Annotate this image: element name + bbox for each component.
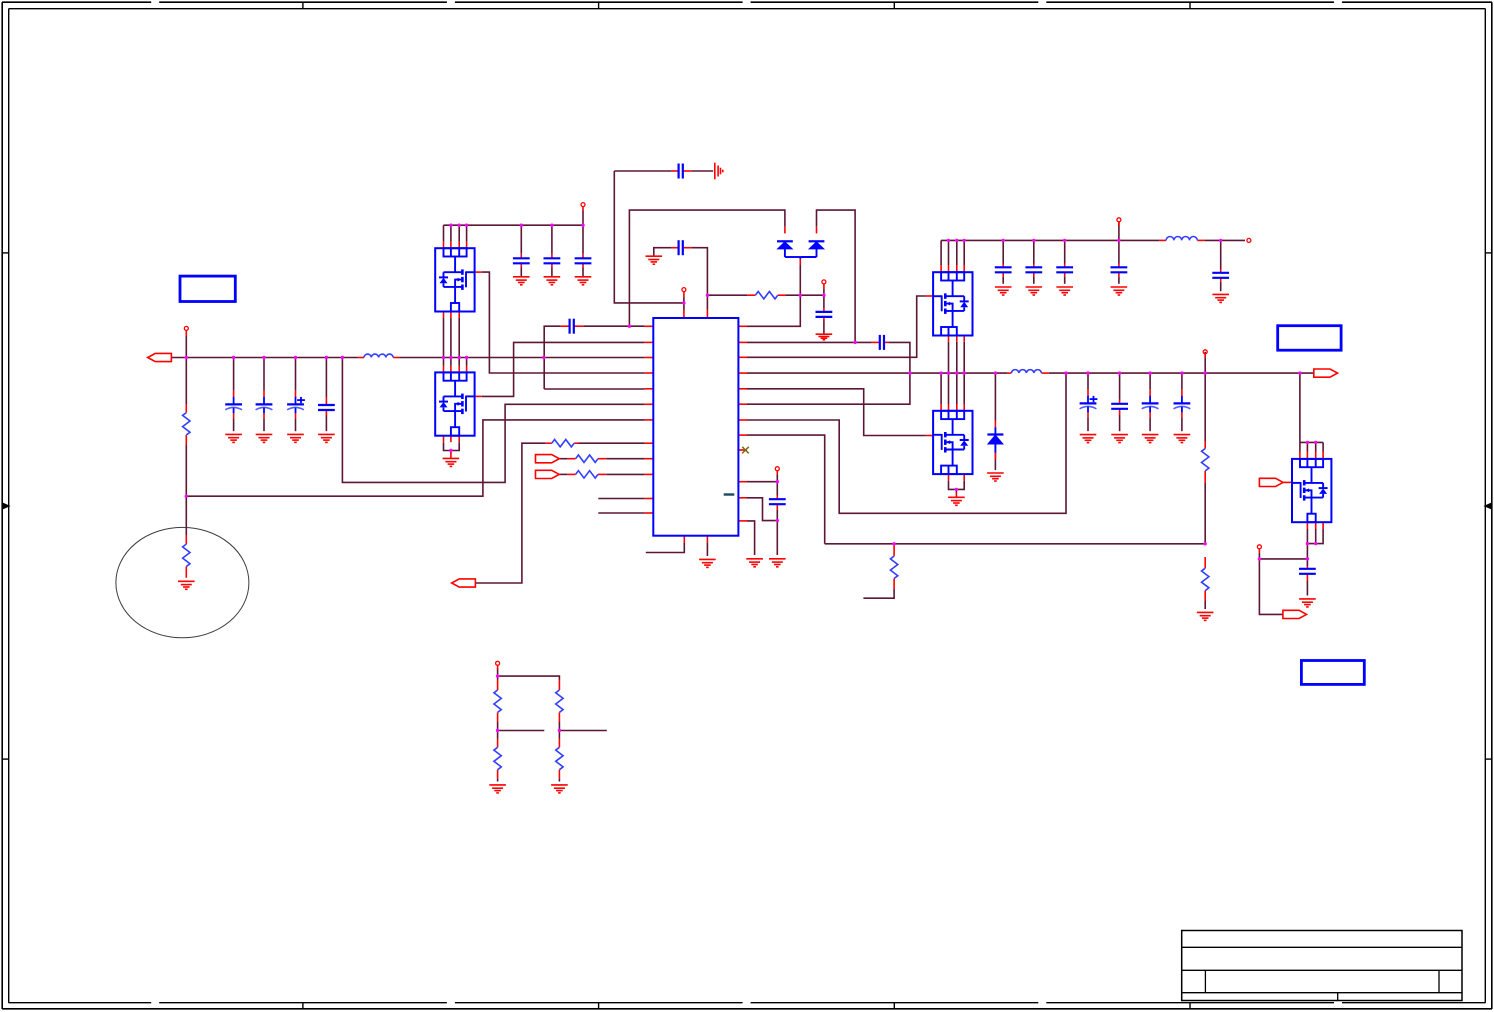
wire bus1 cap C6 drop — [551, 225, 553, 254]
wire R10 to gnd — [1204, 601, 1206, 609]
wire vref bridge — [498, 676, 560, 679]
ground R11b — [489, 785, 506, 793]
resistor R6 — [576, 455, 598, 462]
wire U1 top pin2 drop — [706, 295, 708, 309]
terminal VCC — [822, 280, 826, 284]
resistor R2 — [183, 544, 190, 566]
capacitor C11 boot2 — [880, 335, 884, 350]
ground C6 — [544, 277, 561, 285]
wire Q4 source join — [949, 481, 965, 490]
wire Q5 pin4 down — [1322, 442, 1324, 451]
wire Q5 bus — [1300, 441, 1323, 443]
ground C19 — [1142, 435, 1159, 443]
wire C22 feed — [776, 482, 778, 496]
wire C20 gnd — [1181, 417, 1183, 431]
wire C1 top — [233, 358, 235, 391]
ground C21 — [1299, 599, 1316, 607]
port P7 sense out — [1283, 610, 1307, 618]
wire C3 top — [295, 358, 297, 391]
transistor Q5 — [1292, 459, 1331, 522]
wire U1 pin8R — [747, 435, 825, 544]
ground C15 — [1111, 287, 1128, 295]
wire C13 drop — [1033, 240, 1035, 263]
wire D1 D2 stem — [799, 265, 801, 295]
wire Q5 sources join — [1306, 529, 1308, 544]
ground C3 — [287, 434, 304, 442]
wire Q1 pin3 up — [458, 225, 460, 241]
ground C14 — [1056, 287, 1073, 295]
wire Q4 pin1 feed — [940, 373, 942, 404]
wire L2 to 5V terminal — [1221, 239, 1245, 241]
wire bus2 — [941, 239, 1159, 241]
wire C20 drop — [1181, 373, 1183, 389]
wire C4 top — [325, 358, 327, 398]
wire Q2 source stem — [450, 451, 452, 453]
capacitor C6b — [575, 258, 592, 263]
terminal node VIN — [184, 326, 188, 330]
terminal bus2 — [1117, 218, 1121, 222]
wire U1 pin12R — [747, 521, 755, 555]
resistor R10 — [1202, 568, 1209, 590]
wire C16 drop — [1220, 240, 1222, 269]
capacitor C4 — [318, 405, 335, 410]
wire C1 bottom — [233, 418, 235, 431]
wire C17 drop — [1087, 373, 1089, 389]
wire port2 to R5 — [476, 443, 546, 583]
title block — [1182, 931, 1462, 1001]
no-connect X on U1 pin9R — [742, 447, 749, 454]
ground C1 — [225, 434, 242, 442]
wire Q1 pin2 up — [450, 225, 452, 241]
wire Q5 pin1 down — [1299, 442, 1301, 451]
wire Q3 pin2 up — [948, 240, 950, 265]
wire C11 to SW — [888, 342, 910, 373]
wire R12 tap — [559, 730, 606, 732]
wire C15 gnd — [1118, 277, 1120, 284]
port XP1 input (left) — [148, 353, 172, 361]
wire U1 pin10R node — [747, 481, 777, 483]
wire to port3 — [1259, 559, 1283, 615]
ground U1 gnd pin — [699, 559, 716, 567]
port P5 fb2 — [536, 470, 560, 478]
ground U1 right1 — [746, 559, 763, 567]
wire bus1 terminal drop — [582, 211, 584, 254]
resistor R9 — [1202, 449, 1209, 471]
wire Q4 pin4 feed — [963, 373, 965, 404]
wire C7 right to U1 pin1 — [583, 325, 645, 327]
wire R12 mid — [558, 722, 560, 739]
wire Q5 node row — [1259, 558, 1307, 560]
wire C6 to gnd — [551, 268, 553, 277]
terminal U1 right — [775, 467, 779, 471]
capacitor C6 — [544, 258, 561, 263]
wire R7 to U1 — [606, 473, 644, 475]
terminal Q5 node — [1257, 545, 1261, 549]
wire vcc terminal2 stub — [776, 475, 778, 482]
wire VOUT to Q5 — [1299, 373, 1301, 442]
wire C19 drop — [1149, 373, 1151, 389]
wire Q3 pin4 up — [963, 240, 965, 265]
wire C2 bottom — [263, 418, 265, 431]
capacitor C7 boot — [570, 319, 574, 334]
wire Q2 pin1 feed — [443, 358, 445, 366]
ground C18 — [1111, 435, 1128, 443]
transistor Q1 — [435, 248, 474, 311]
ground C4 — [318, 434, 335, 442]
wire port fb2 lead — [559, 473, 567, 475]
port P6 gate drive — [1259, 478, 1283, 486]
ground C17 — [1080, 435, 1097, 443]
inductor L1 — [364, 354, 393, 357]
capacitor C15 — [1111, 267, 1128, 272]
resistor R12 — [556, 690, 563, 712]
wire Q5 source join2 — [1315, 529, 1317, 544]
ground C20 — [1174, 435, 1191, 443]
port P3 (lower left) — [452, 579, 476, 587]
capacitor C16 — [1212, 273, 1229, 278]
wire C15 drop — [1118, 240, 1120, 263]
wire Q1 pin6 down — [450, 318, 452, 358]
ground R12b — [551, 785, 568, 793]
wire vref terminal — [497, 668, 499, 680]
wire D3 top — [994, 373, 996, 420]
wire Q3 pin5 down — [948, 342, 950, 373]
wire FB row — [825, 543, 1205, 545]
wire L2 out — [1205, 239, 1221, 241]
wire U1 pad pin hook — [646, 542, 685, 552]
inductor L3 — [1011, 370, 1041, 373]
wire U1 pin5R to Q4 gate — [747, 389, 926, 436]
wire C5 to gnd — [520, 268, 522, 277]
wire port fb1 lead — [559, 458, 567, 460]
wire C19 gnd — [1149, 417, 1151, 431]
Q4 stem red — [955, 493, 957, 498]
wire rail to R1 — [185, 358, 187, 405]
wire Q3 pin6 down — [956, 342, 958, 373]
wire C7 left lead — [544, 326, 560, 389]
wire C2 top — [263, 358, 265, 391]
wire tap to R2 — [185, 496, 187, 535]
wire Q3 pin1 up — [940, 240, 942, 265]
terminal 5V out — [1247, 238, 1251, 242]
wire C14 gnd — [1064, 277, 1066, 284]
wire C12 drop — [1002, 240, 1004, 263]
ground C16 — [1212, 294, 1229, 302]
wire Q5 source join3 — [1307, 529, 1323, 544]
resistor R8 — [890, 556, 897, 578]
wire bus1 cap C5 drop — [520, 225, 522, 254]
capacitor C20 (polar) — [1174, 396, 1191, 413]
wire C5b to gnd — [582, 268, 584, 277]
wire U1 pin12L stub — [598, 512, 644, 514]
resistor R11b — [494, 747, 501, 769]
wire U1 pin6R to SW — [747, 373, 910, 404]
wire C9 right corner — [691, 248, 707, 296]
wire C18 drop — [1119, 373, 1121, 399]
wire Q4 pin2 feed — [948, 373, 950, 404]
wire R11 mid — [497, 722, 499, 739]
wire Q2 source join — [444, 442, 460, 450]
wire U1 pin11R jog — [747, 498, 777, 521]
ground C12 — [995, 287, 1012, 295]
wire Q3 pin7 down — [963, 342, 965, 373]
resistor R3 — [755, 292, 777, 299]
diode D1 — [777, 241, 793, 249]
wire R6 to U1 — [606, 458, 644, 460]
capacitor C2 (polar) — [256, 397, 273, 414]
wire R5 to U1 — [579, 442, 645, 444]
diode D2 bottom lead — [800, 249, 816, 259]
inductor L2 — [1166, 236, 1197, 240]
capacitor C10 vcc — [816, 312, 833, 317]
diode D3 — [987, 435, 1003, 445]
wire Q1 pin5 down — [443, 318, 445, 358]
capacitor C17 (polar +) — [1080, 396, 1098, 413]
ground Q2 source — [443, 458, 460, 466]
label box aux — [1301, 661, 1364, 685]
capacitor C14 — [1056, 267, 1073, 272]
ground U1 right2 — [769, 559, 786, 567]
wire Q1 pin1 up — [443, 225, 445, 241]
wire U1 gnd pin — [706, 542, 708, 556]
wire VCC to U1 pin1R — [747, 295, 800, 326]
wire U1 pin2R to C11 — [747, 341, 872, 343]
wire Q1 pin7 down — [458, 318, 460, 358]
wire Q4 pin3 feed — [956, 373, 958, 404]
terminal U1 top — [682, 288, 686, 292]
diode D2 — [809, 241, 825, 249]
wire divider tap to U1 — [186, 420, 644, 496]
ground R10 — [1197, 612, 1214, 620]
wire R11b gnd — [497, 778, 499, 781]
wire C7 row to U1 pin5 — [544, 388, 645, 390]
ground R2 (in circle) — [178, 581, 195, 589]
wire C13 gnd — [1033, 277, 1035, 284]
wire VCC node row — [707, 294, 747, 296]
capacitor C13 — [1025, 267, 1042, 272]
ground Q4 source — [948, 497, 965, 505]
chassis ground (rotated) — [715, 163, 723, 180]
wire Q1 pin4 up — [466, 225, 468, 241]
wire input terminal drop — [185, 336, 187, 358]
capacitor C3 (polar +) — [287, 397, 305, 414]
resistor R1 — [183, 413, 190, 435]
ground C13 — [1026, 287, 1043, 295]
capacitor C18 — [1111, 404, 1128, 409]
terminal vref — [496, 661, 500, 665]
wire Q4 source stem — [955, 489, 957, 492]
wire bus2 terminal — [1118, 222, 1120, 241]
diode D3 leads — [994, 427, 996, 453]
terminal bus1 — [581, 203, 585, 207]
wire D3 bottom — [994, 453, 996, 470]
wire U1 pin7R to VOUT — [747, 373, 1066, 513]
wire C8 drop to U1 top pin — [614, 171, 684, 303]
wire VOUT rail — [1049, 372, 1314, 374]
label box VIN — [180, 276, 235, 301]
capacitor C1 (polar) — [225, 397, 242, 414]
wire C17 gnd — [1087, 417, 1089, 431]
wire Q2 pin3 feed — [458, 358, 460, 366]
wire VIN rail to IC — [399, 357, 645, 359]
U1 internal mark — [724, 493, 735, 495]
wire Q2 pin4 feed — [466, 358, 468, 366]
wire Q3 pin3 up — [956, 240, 958, 265]
ground C10 — [816, 334, 833, 340]
U1 pin stubs — [645, 310, 747, 543]
wire rail junction to U1 EN pin — [342, 358, 644, 483]
U1 controller IC — [653, 318, 738, 536]
capacitor C12 — [995, 267, 1012, 272]
ground C6b — [575, 277, 592, 285]
wire VCC terminal stub — [823, 289, 825, 295]
analysis ellipse — [116, 527, 249, 637]
wire Q1 gate to U1 — [482, 272, 645, 373]
capacitor C8 (top) — [679, 164, 683, 179]
wire Q5 pin3 down — [1315, 442, 1317, 451]
capacitor C9 — [679, 240, 683, 255]
wire VCC bus1 — [444, 224, 584, 226]
transistor Q2 — [435, 372, 474, 435]
resistor R7 — [576, 471, 598, 478]
wire VIN rail from input port — [171, 357, 358, 359]
wire VCC cap drop — [823, 295, 825, 308]
transistor Q3 — [933, 272, 972, 335]
wire R8 hook — [863, 589, 894, 598]
wire R12b gnd — [558, 778, 560, 781]
wire R3 to diode node — [785, 294, 824, 296]
wire C12 gnd — [1002, 277, 1004, 284]
wire C8 left lead — [614, 170, 671, 172]
capacitor C5 — [513, 258, 530, 263]
wire C18 gnd — [1119, 415, 1121, 431]
wire Q5 terminal stub — [1258, 553, 1260, 559]
ground D3 — [987, 473, 1004, 481]
wire C16 gnd — [1220, 282, 1222, 291]
wire R1 to divider tap — [185, 445, 187, 496]
transistor Q4 — [933, 411, 972, 474]
wire C22 out — [776, 510, 778, 555]
capacitor C21 — [1299, 569, 1316, 574]
resistor R12b — [556, 747, 563, 769]
resistor R11 — [494, 690, 501, 712]
capacitor C22 — [769, 499, 786, 504]
wire U1 top pin1 stub — [683, 298, 685, 310]
wire C3 bottom — [295, 418, 297, 431]
wire C8 right to chassis — [691, 170, 713, 172]
port P4 fb1 — [536, 455, 560, 463]
wire R9 top — [1204, 352, 1206, 441]
label box VOUT — [1278, 326, 1341, 351]
wire C21 gnd — [1306, 581, 1308, 596]
wire VCC cap to gnd — [823, 321, 825, 335]
wire U1 pin11L stub — [598, 498, 644, 500]
wire C9 gnd corner — [654, 248, 672, 257]
diode D1 bottom lead — [785, 249, 800, 257]
wire C21 drop — [1306, 559, 1308, 566]
wire R9 to FB — [1204, 483, 1206, 544]
terminal VOUT div — [1203, 350, 1207, 354]
wire Q2 gate to U1 — [482, 342, 645, 396]
ground C5 — [513, 277, 530, 285]
port XP2 output (right) — [1314, 369, 1338, 377]
resistor R5 — [552, 440, 574, 447]
wire C4 bottom — [325, 416, 327, 432]
wire Q5 pin2 down — [1306, 442, 1308, 451]
ground C2 — [256, 434, 273, 442]
capacitor C19 (polar) — [1142, 396, 1159, 413]
wire C14 drop — [1064, 240, 1066, 263]
transistor pin stubs — [444, 242, 1324, 529]
ground C9 — [646, 256, 663, 264]
wire D2 riser — [817, 210, 856, 342]
component lead stubs — [186, 171, 1307, 778]
wire Q5 stem — [1306, 544, 1308, 559]
wire SW rail — [747, 372, 1007, 374]
wire U1 pin1 riser to D1 — [629, 210, 785, 326]
wire U1 pin3R to Q3 gate — [747, 296, 926, 357]
wire Q2 pin2 feed — [450, 358, 452, 366]
wire R11 tap — [498, 730, 545, 732]
